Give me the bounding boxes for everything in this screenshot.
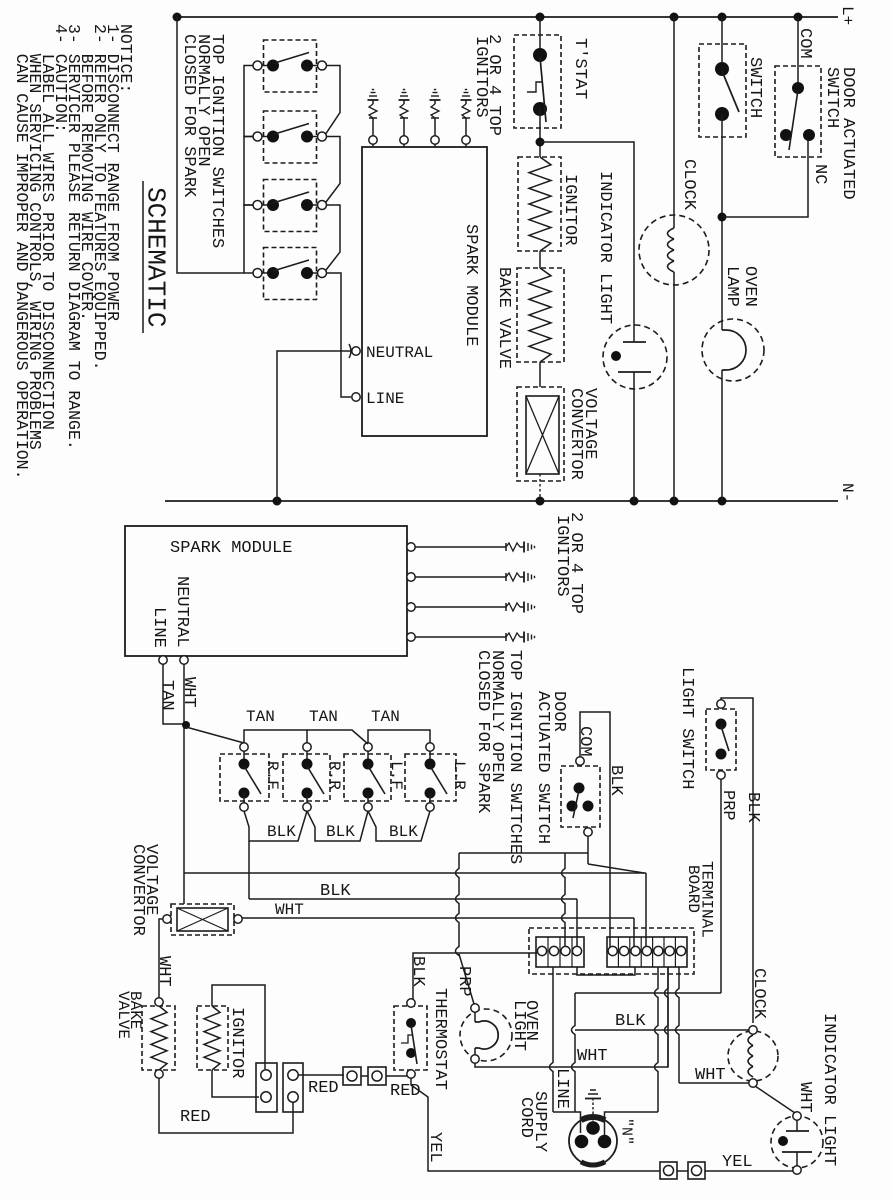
wire RED mid run [298, 1074, 344, 1076]
svg-text:CORD: CORD [516, 1097, 535, 1138]
wire switch left chain [244, 66, 253, 137]
bake valve L1 box [517, 268, 564, 362]
wire board link y975 [577, 967, 635, 975]
svg-text:IGNITOR: IGNITOR [227, 1007, 246, 1078]
wire ignitor to bake valve [539, 251, 541, 268]
burner switch L.R [405, 754, 456, 801]
bake valve (bottom) [142, 1006, 175, 1070]
svg-text:INDICATOR LIGHT: INDICATOR LIGHT [819, 1013, 838, 1166]
svg-text:BLK: BLK [320, 882, 351, 901]
svg-text:R.R: R.R [325, 761, 343, 790]
wire WHT convertor to bake valve [159, 919, 163, 998]
wire ground stem to plug [592, 1098, 594, 1122]
YEL terminal square 2 [688, 1162, 705, 1179]
terminal board group 2 [607, 937, 687, 967]
node L+ rail junction dots [173, 13, 182, 22]
svg-text:CLOCK: CLOCK [679, 159, 698, 211]
svg-text:NC: NC [810, 164, 829, 184]
svg-text:BLK: BLK [743, 792, 762, 823]
svg-text:R.F: R.F [263, 761, 281, 790]
wire left feed rail [177, 17, 244, 273]
wire L+ rail [176, 16, 838, 18]
ignitor symbols E1-E4 (bottom) [505, 543, 507, 551]
svg-text:SWITCH: SWITCH [822, 67, 841, 128]
svg-text:LINE: LINE [366, 390, 404, 408]
wire TAN bus 2 [307, 730, 368, 744]
svg-text:ACTUATED SWITCH: ACTUATED SWITCH [533, 691, 552, 844]
clock terminals (bottom) [749, 1026, 757, 1034]
oven thermostat [394, 1006, 427, 1070]
svg-text:CAN CAUSE IMPROPER AND DANGERO: CAN CAUSE IMPROPER AND DANGEROUS OPERATI… [12, 24, 31, 479]
svg-text:PRP: PRP [718, 790, 737, 821]
svg-text:OVEN: OVEN [740, 266, 759, 307]
node oven lamp branch junction [718, 213, 727, 222]
terminal block 1 [256, 1063, 277, 1112]
indicator light DS1 envelope [603, 325, 667, 389]
svg-text:SPARK MODULE: SPARK MODULE [461, 224, 480, 346]
wire YEL from thermostat [411, 1078, 660, 1171]
wire oven light top lead [474, 1012, 476, 1022]
clock envelope (bottom) [728, 1031, 778, 1081]
spark module U1 box [362, 147, 487, 436]
spark module top terminals [372, 142, 374, 147]
voltage convertor T1 (bottom) [171, 904, 234, 935]
oven light terminals [471, 1004, 479, 1012]
wire LINE from terminal board [550, 967, 554, 1112]
svg-text:SWITCH: SWITCH [745, 57, 764, 118]
indicator light DS1 neon lamp [633, 326, 635, 342]
oven ignitor R1 box [518, 157, 561, 251]
wire BLK chain 2 [307, 811, 368, 841]
ignitor symbols E1-E4 (top) [372, 118, 374, 136]
node N- rail junction dots [273, 497, 282, 506]
oven ignitor R1 element [529, 157, 551, 251]
oven light lamp [475, 1021, 498, 1049]
RED terminal square 2 [368, 1067, 386, 1085]
wire WHT oven light run [475, 967, 668, 1067]
svg-text:WHT: WHT [179, 677, 198, 708]
svg-text:TAN: TAN [371, 708, 400, 726]
svg-text:VALVE: VALVE [114, 991, 132, 1039]
wire L+ to T'STAT [539, 17, 541, 55]
svg-text:RED: RED [308, 1079, 339, 1098]
oven ignitor (bottom) [197, 1006, 228, 1070]
clock M1 envelope [639, 215, 709, 285]
svg-text:SPARK MODULE: SPARK MODULE [170, 539, 292, 558]
wire switch output to spark module LINE [326, 273, 351, 397]
svg-text:BOARD: BOARD [684, 865, 702, 913]
wire bus WHT drop to terminal [633, 918, 635, 947]
wire junction to indicator light [540, 142, 634, 326]
supply cord plug [569, 1117, 617, 1165]
svg-text:IGNITORS: IGNITORS [471, 36, 490, 118]
svg-text:INDICATOR LIGHT: INDICATOR LIGHT [595, 171, 614, 324]
terminal board group 1 [536, 937, 584, 967]
svg-text:L.F: L.F [387, 761, 405, 790]
top ignition switch S1 [264, 40, 317, 92]
wire thermostat BLK to terminal board [413, 953, 537, 999]
svg-text:IGNITORS: IGNITORS [552, 515, 571, 597]
YEL terminal square 1 [660, 1162, 677, 1179]
voltage convertor T1 box [517, 387, 564, 481]
svg-text:N-: N- [838, 483, 856, 502]
terminal block 2 [283, 1063, 303, 1112]
svg-text:WHT: WHT [577, 1047, 608, 1066]
ground symbol [590, 1089, 596, 1091]
wire ignitor bottom lead [212, 1070, 259, 1097]
door actuated switch (bottom) [561, 766, 600, 827]
oven light envelope [460, 1009, 512, 1061]
spark module LINE terminal [352, 393, 360, 401]
svg-text:BLK: BLK [408, 956, 427, 987]
node TAN junction [182, 721, 190, 729]
wire N- rail [165, 500, 838, 502]
svg-text:LINE: LINE [149, 607, 168, 648]
svg-text:LIGHT: LIGHT [509, 1000, 528, 1051]
svg-text:CLOCK: CLOCK [749, 968, 768, 1020]
thermostat T'STAT switch [514, 35, 561, 128]
wire oven lamp to N- rail [721, 370, 723, 501]
svg-text:"N": "N" [618, 1118, 635, 1145]
svg-text:L.R: L.R [450, 761, 468, 790]
wire NEUTRAL to N- rail [277, 351, 352, 501]
spark module bottom terminals [159, 656, 167, 664]
wire bundle drop (x565) [562, 853, 566, 947]
svg-text:RED: RED [390, 1082, 421, 1101]
svg-text:TAN: TAN [309, 708, 338, 726]
wire L+ to clock [673, 17, 675, 228]
wire NC branch [722, 140, 808, 217]
svg-text:BLK: BLK [326, 823, 355, 841]
top ignition switch S3 [264, 180, 317, 232]
wire TAN bus 1 [244, 730, 307, 743]
wire switch to oven lamp [721, 114, 723, 330]
wire light switch PRP down [720, 779, 722, 993]
wire bus riser to terminal 646 [645, 873, 647, 947]
svg-text:CONVERTOR: CONVERTOR [128, 844, 147, 936]
svg-text:TAN: TAN [157, 680, 176, 711]
oven lamp switch SW [699, 44, 746, 137]
svg-text:YEL: YEL [425, 1132, 444, 1163]
wire drop x575 [572, 993, 576, 1112]
wire NC to PRP bundle [587, 836, 589, 864]
wire oven light bottom lead [474, 1048, 476, 1055]
voltage convertor T1 element [526, 396, 559, 474]
wire RED to thermostat [386, 1075, 407, 1077]
wire voltage convertor to N- rail [539, 474, 541, 501]
wire terminal drop x658 [655, 967, 659, 1112]
svg-text:THERMOSTAT: THERMOSTAT [430, 988, 449, 1090]
light switch [706, 709, 736, 770]
svg-text:CLOSED FOR SPARK: CLOSED FOR SPARK [179, 34, 198, 198]
wire plug right lead [605, 1112, 659, 1135]
indicator light terminals (bottom) [793, 1112, 801, 1120]
bake valve L1 element [529, 268, 551, 362]
wire bus BLK-upper (y873) [184, 872, 646, 874]
clock coil (bottom) [748, 1035, 753, 1046]
spark module U1 box (bottom) [125, 526, 407, 656]
burner switch L.F [344, 754, 391, 801]
SCHEMATIC underline [142, 181, 144, 333]
wire L+ to switch [721, 17, 723, 69]
svg-text:BLK: BLK [606, 765, 625, 796]
svg-text:YEL: YEL [722, 1153, 753, 1172]
indicator light neon (bottom) [796, 1120, 798, 1131]
indicator light envelope (bottom) [771, 1116, 823, 1168]
svg-text:CONVERTOR: CONVERTOR [566, 388, 585, 480]
spark module right terminals and leads [407, 543, 415, 551]
door actuated switch (top) [775, 66, 821, 157]
wire PRP bundle [456, 853, 460, 956]
wire clock WHT (y1083) [679, 1082, 749, 1084]
svg-text:TOP IGNITION SWITCHES: TOP IGNITION SWITCHES [505, 650, 524, 864]
burner switch R.F [220, 754, 269, 801]
wire RED bake valve run [159, 1078, 293, 1133]
svg-text:NEUTRAL: NEUTRAL [172, 576, 191, 647]
wire bake valve to voltage convertor [539, 362, 541, 387]
svg-text:PRP: PRP [454, 966, 473, 997]
wire TAN bus 3 [368, 730, 430, 743]
svg-text:COM: COM [795, 28, 814, 59]
wire terminal drop x679 [676, 967, 680, 1083]
wire TAN diagonal to switch 1 [186, 727, 244, 743]
wire PRP horizontal (y993) [575, 992, 721, 994]
svg-text:WHT: WHT [795, 1082, 814, 1113]
svg-text:WHT: WHT [695, 1066, 726, 1085]
wire switch right chain [326, 66, 340, 134]
svg-text:BLK: BLK [389, 823, 418, 841]
wire WHT from NEUTRAL terminal [183, 664, 185, 904]
svg-text:NEUTRAL: NEUTRAL [366, 344, 433, 362]
wire bus BLK (y899) [249, 898, 577, 900]
top ignition switch S4 [264, 248, 317, 300]
wire TAN from LINE terminal [163, 664, 184, 724]
svg-text:COM: COM [575, 726, 594, 757]
svg-text:LIGHT SWITCH: LIGHT SWITCH [677, 667, 696, 789]
wire clock BLK bus (y1030) [575, 1029, 749, 1031]
wire BLK chain drop [248, 841, 250, 899]
wire YEL to indicator light [705, 1170, 793, 1172]
burner switch R.R [283, 754, 330, 801]
svg-text:BLK: BLK [267, 823, 296, 841]
node T'STAT output junction [536, 138, 545, 147]
svg-text:CLOSED FOR SPARK: CLOSED FOR SPARK [473, 650, 492, 814]
terminal board outline [529, 928, 694, 974]
svg-text:BLK: BLK [615, 1012, 646, 1031]
wire bus WHT (y918) [242, 917, 634, 919]
spark module NEUTRAL terminal [352, 347, 360, 355]
top ignition switch S2 [264, 111, 317, 163]
wire BLK chain 1 [244, 811, 307, 841]
wire COM BLK to terminal board [580, 712, 610, 947]
oven lamp DS2 envelope [702, 319, 764, 381]
wire clock to indicator diagonal [755, 1086, 795, 1113]
wire clock to N- rail [673, 272, 675, 501]
wire L+ to door switch COM [797, 17, 799, 88]
svg-text:WHT: WHT [275, 901, 304, 919]
RED terminal square 1 [343, 1067, 361, 1085]
wire T'STAT to ignitor node [539, 109, 541, 157]
wire BLK chain 3 [368, 811, 430, 841]
svg-text:BAKE VALVE: BAKE VALVE [494, 267, 513, 369]
svg-text:LINE: LINE [552, 1068, 571, 1109]
svg-text:TAN: TAN [246, 708, 275, 726]
svg-text:IGNITOR: IGNITOR [560, 174, 579, 245]
wire YEL squares link [677, 1170, 688, 1172]
svg-text:WHT: WHT [154, 956, 173, 987]
svg-text:L+: L+ [838, 6, 856, 25]
wire ignitor top lead [212, 985, 265, 1069]
clock M1 coil [668, 228, 675, 239]
svg-text:SCHEMATIC: SCHEMATIC [141, 187, 171, 327]
svg-text:T'STAT: T'STAT [570, 38, 589, 99]
wire terminal drop x668 [665, 967, 669, 1067]
wire bus BLK drop to terminal [576, 899, 578, 947]
wire RED squares link [361, 1075, 368, 1077]
wire PRP diagonal to oven light [459, 954, 474, 1004]
wire light switch BLK to clock [721, 698, 753, 1023]
svg-text:RED: RED [180, 1108, 211, 1127]
oven lamp DS2 filament [722, 330, 746, 370]
svg-text:LAMP: LAMP [722, 266, 741, 307]
